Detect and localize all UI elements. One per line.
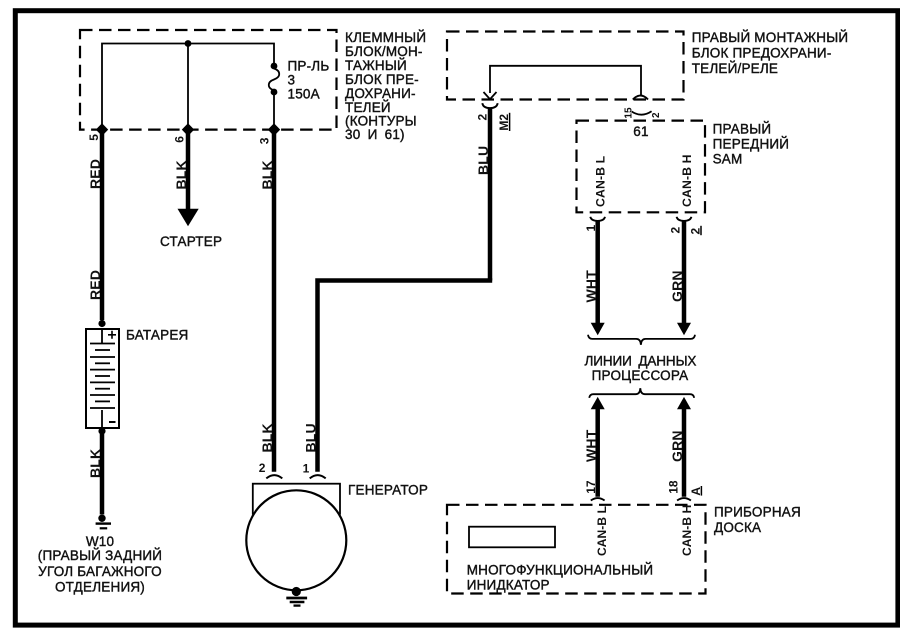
svg-text:GRN: GRN (669, 430, 685, 462)
svg-text:CAN-B H: CAN-B H (680, 505, 694, 556)
svg-text:ЛИНИИ ДАННЫХ: ЛИНИИ ДАННЫХ (584, 354, 696, 369)
svg-text:ПРИБОРНАЯ: ПРИБОРНАЯ (714, 505, 801, 520)
svg-text:BLK: BLK (87, 449, 103, 478)
svg-text:ПРАВЫЙ МОНТАЖНЫЙ: ПРАВЫЙ МОНТАЖНЫЙ (692, 30, 849, 45)
connector smile between blocks (632, 111, 652, 114)
svg-text:17: 17 (584, 480, 598, 494)
svg-text:BLK: BLK (173, 160, 189, 189)
node on bus at pin6 (185, 40, 192, 47)
svg-text:CAN-B L: CAN-B L (595, 506, 609, 556)
svg-text:МНОГОФУНКЦИОНАЛЬНЫЙ: МНОГОФУНКЦИОНАЛЬНЫЙ (467, 562, 654, 577)
svg-text:КЛЕММНЫЙ: КЛЕММНЫЙ (345, 30, 426, 45)
arrowhead into M2 connector (484, 92, 497, 99)
junction node pin6 (182, 123, 194, 136)
svg-text:BLK: BLK (259, 423, 275, 452)
svg-text:ПРАВЫЙ: ПРАВЫЙ (713, 121, 772, 136)
svg-text:2: 2 (651, 112, 662, 118)
svg-text:W10: W10 (86, 534, 114, 549)
battery БАТАРЕЯ (86, 329, 119, 428)
svg-text:ПР-ЛЬ: ПР-ЛЬ (288, 59, 330, 74)
connector cap dash pin18 (677, 498, 691, 500)
label (ПРАВЫЙ ЗАДНИЙ УГОЛ БАГАЖНОГО ОТДЕЛЕНИЯ) (38, 548, 162, 595)
wire GRN down arrow (682, 221, 687, 324)
wire inside right fuse box (490, 66, 641, 95)
svg-text:ПЕРЕДНИЙ: ПЕРЕДНИЙ (713, 137, 790, 152)
svg-text:BLU: BLU (475, 146, 491, 175)
svg-text:ДОСКА: ДОСКА (714, 520, 761, 535)
svg-text:6: 6 (172, 136, 186, 143)
brace upper (588, 335, 695, 345)
svg-text:ИНИДКАТОР: ИНИДКАТОР (467, 578, 550, 593)
fuse ПР-ЛЬ 3 150A (269, 63, 280, 130)
connector cap generator pin1 (310, 475, 326, 478)
svg-text:M2: M2 (497, 114, 511, 131)
connector cap generator pin2 (266, 475, 282, 478)
connector M2 socket (482, 103, 497, 108)
svg-text:СТАРТЕР: СТАРТЕР (160, 234, 222, 249)
wire BLK to starter with arrow (186, 130, 191, 210)
junction node pin5 (96, 123, 108, 136)
wire WHT up arrow (591, 397, 605, 409)
brace lower (589, 388, 694, 398)
generator ground (286, 587, 307, 606)
svg-text:CAN-B L: CAN-B L (593, 155, 607, 207)
svg-text:ГЕНЕРАТОР: ГЕНЕРАТОР (348, 483, 428, 498)
svg-text:150А: 150А (288, 87, 320, 102)
svg-text:SAM: SAM (713, 151, 743, 166)
fuse value label ПР-ЛЬ 3 150А (288, 59, 330, 102)
label ЛИНИИ ДАННЫХ ПРОЦЕССОРА (584, 354, 696, 383)
svg-text:3: 3 (288, 73, 296, 88)
svg-text:WHT: WHT (583, 270, 599, 303)
connector cup SAM pin1 (590, 217, 605, 221)
svg-text:ТАЖНЫЙ: ТАЖНЫЙ (345, 58, 407, 73)
svg-text:БЛОК/МОН-: БЛОК/МОН- (345, 44, 423, 59)
label КЛЕММНЫЙ БЛОК/МОНТАЖНЫЙ БЛОК ПРЕДОХРАНИТЕЛЕЙ (КОНТУРЫ 30 И 61) (345, 30, 426, 142)
svg-text:БЛОК ПРЕ-: БЛОК ПРЕ- (345, 72, 419, 87)
svg-text:2: 2 (476, 114, 490, 121)
wire RED battery feed (100, 130, 105, 320)
svg-text:БЛОК ПРЕДОХРАНИ-: БЛОК ПРЕДОХРАНИ- (692, 46, 832, 61)
connector id A underlined (689, 486, 703, 496)
SAM dashed box (577, 121, 706, 213)
label МНОГОФУНКЦИОНАЛЬНЫЙ ИНИДКАТОР (467, 562, 654, 592)
connector cap dash pin17 (591, 498, 605, 500)
svg-text:61: 61 (633, 124, 648, 139)
bus wire inside terminal block (102, 44, 274, 130)
wire WHT down arrow (595, 221, 600, 324)
label ПРИБОРНАЯ ДОСКА (714, 505, 801, 536)
svg-text:RED: RED (87, 159, 103, 189)
svg-text:БАТАРЕЯ: БАТАРЕЯ (126, 328, 188, 343)
svg-text:WHT: WHT (583, 429, 599, 462)
svg-text:BLK: BLK (259, 160, 275, 189)
wire BLK battery to ground (100, 431, 105, 515)
battery node bottom (98, 427, 105, 434)
svg-text:15: 15 (623, 107, 634, 119)
connector id 2 underlined (689, 226, 703, 235)
connector id M2 (497, 113, 511, 131)
instrument panel dashed box ПРИБОРНАЯ ДОСКА (447, 505, 706, 594)
label ПРАВЫЙ ПЕРЕДНИЙ SAM (713, 121, 790, 166)
svg-text:BLU: BLU (303, 423, 319, 452)
svg-text:2: 2 (259, 461, 266, 475)
fuse/terminal block dashed box (КЛЕММНЫЙ БЛОК) (80, 30, 337, 130)
svg-text:ТЕЛЕЙ/РЕЛЕ: ТЕЛЕЙ/РЕЛЕ (692, 61, 778, 76)
svg-text:ДОХРАНИ-: ДОХРАНИ- (345, 86, 416, 101)
wire BLU M2 down (488, 108, 493, 281)
battery node top (98, 320, 105, 327)
wire GRN up arrow (677, 397, 691, 409)
svg-text:1: 1 (303, 461, 310, 475)
svg-text:ОТДЕЛЕНИЯ): ОТДЕЛЕНИЯ) (55, 580, 145, 595)
connector cup SAM pin2 (677, 217, 692, 221)
svg-text:(ПРАВЫЙ ЗАДНИЙ: (ПРАВЫЙ ЗАДНИЙ (38, 548, 162, 563)
ground W10 (96, 515, 111, 529)
multifunction indicator box (469, 527, 555, 548)
wire link horizontal (318, 281, 493, 472)
right fuse/relay dashed box ПРАВЫЙ МОНТАЖНЫЙ (447, 32, 684, 100)
svg-text:CAN-B H: CAN-B H (680, 154, 694, 207)
generator ГЕНЕРАТОР (246, 484, 346, 591)
svg-text:ПРОЦЕССОРА: ПРОЦЕССОРА (592, 368, 689, 383)
svg-text:18: 18 (666, 480, 680, 494)
connector bump pin15 on box edge (633, 96, 648, 100)
junction node pin3 (268, 123, 280, 136)
svg-text:5: 5 (87, 134, 101, 141)
label ПРАВЫЙ МОНТАЖНЫЙ БЛОК ПРЕДОХРАНИТЕЛЕЙ/РЕЛЕ (692, 30, 849, 76)
svg-text:3: 3 (257, 137, 271, 144)
svg-text:GRN: GRN (669, 270, 685, 302)
svg-text:УГОЛ БАГАЖНОГО: УГОЛ БАГАЖНОГО (38, 564, 162, 579)
svg-text:RED: RED (87, 270, 103, 300)
wire BLK pin3 to generator (272, 130, 277, 472)
wire pin6 drop (187, 44, 189, 130)
svg-text:30 И 61): 30 И 61) (345, 127, 405, 142)
svg-text:2: 2 (669, 227, 683, 234)
